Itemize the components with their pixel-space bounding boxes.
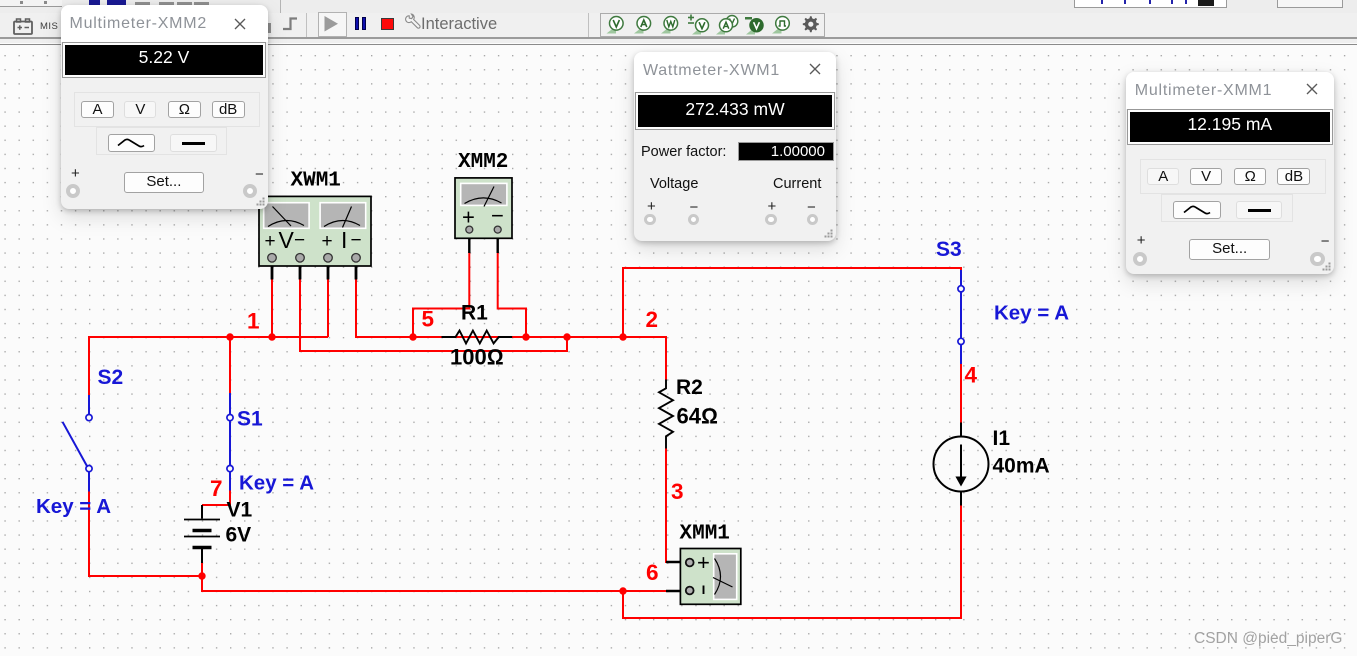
wire S2 lower [89,492,202,577]
svg-text:+: + [265,231,276,252]
row1 clipped blue icons [89,0,100,5]
wire XWM1 I+ drop [327,279,329,337]
battery icon button [11,17,37,39]
junction node 2 [619,333,626,340]
wire XMM2 minus to node2 [498,252,526,337]
svg-text:I: I [341,227,347,253]
svg-text:+: + [322,231,333,252]
clipped icon right of dialog [266,23,271,33]
svg-text:−: − [491,203,504,228]
svg-text:V: V [279,227,295,253]
Interactive text [421,15,497,34]
probe minus V [745,17,763,35]
svg-text:R2: R2 [676,376,703,399]
separator [306,13,307,37]
battery V1 [184,505,220,563]
svg-text:−: − [294,230,305,251]
multimeter XMM2 [455,178,512,253]
switch S3 [958,270,964,364]
wire bus node1 left segment [89,337,328,395]
svg-text:S2: S2 [98,366,124,389]
row1 clipped right box [1277,0,1343,8]
resistor R2 [659,380,673,449]
svg-text:3: 3 [671,479,684,504]
row1 left button remnant [0,0,62,7]
dialog Multimeter-XMM1 [1126,72,1334,274]
switch S2 [63,395,93,492]
wire R2 to XMM1 plus [666,449,668,563]
MISC text [40,21,58,32]
probe V [607,17,624,34]
svg-text:+: + [697,550,710,575]
wire node2 up to S3 [623,268,961,337]
svg-text:XMM1: XMM1 [680,523,730,546]
junction V- return [563,333,570,340]
svg-text:I1: I1 [993,427,1011,450]
wire node5 to XMM2 plus [413,252,469,337]
wire V1 to bottom bus [202,505,961,618]
wire S1 branch [229,337,231,393]
row1 clipped gray icons [135,2,150,6]
svg-text:40mA: 40mA [993,455,1050,478]
svg-text:XMM2: XMM2 [458,151,508,174]
svg-text:100Ω: 100Ω [450,345,504,370]
current source I1 [934,423,989,506]
switch S1 [227,393,233,491]
junction node 6 [619,587,626,594]
pause icon [355,17,360,31]
svg-text:6: 6 [646,560,659,585]
wire XWM1 V- return [300,279,567,351]
svg-text:7: 7 [210,476,223,501]
row1 clipped combo box [1074,0,1227,8]
junction V+ [268,333,275,340]
svg-text:S1: S1 [237,408,263,431]
svg-text:6V: 6V [226,524,252,547]
watermark [1194,630,1342,648]
svg-text:Key = A: Key = A [36,495,111,518]
svg-text:R1: R1 [461,302,488,325]
row1 separator [280,0,281,13]
svg-text:64Ω: 64Ω [677,404,718,429]
separator [588,13,589,37]
wire bus node2 segment [356,279,666,380]
junction node 1 [226,333,233,340]
svg-text:−: − [351,230,362,251]
dialog Multimeter-XMM2 [61,5,268,209]
probe W [661,17,678,34]
multimeter XMM1 [666,549,741,605]
junction XMM2 minus [522,333,529,340]
svg-text:5: 5 [422,307,435,332]
play button [318,12,347,38]
svg-text:V1: V1 [227,499,253,522]
toolbar row 2 [0,13,1357,37]
probe A [634,17,651,34]
wattmeter XWM1 [259,196,371,279]
svg-text:Key = A: Key = A [239,472,314,495]
svg-text:2: 2 [646,307,659,332]
svg-text:XWM1: XWM1 [291,170,341,193]
probe pulse [772,17,789,34]
svg-text:S3: S3 [936,238,962,261]
wrench icon [404,13,422,31]
dialog Wattmeter-XWM1 [634,52,836,241]
wire bottom to XMM1 minus [623,590,667,592]
wire S1 to V1 [202,491,230,506]
wire S3 to I1 node4 [960,364,962,423]
junction node 5 [409,333,416,340]
gear icon [803,16,819,32]
step icon [280,14,302,36]
stop icon [381,18,394,31]
resistor R1 [442,331,513,344]
svg-text:1: 1 [247,309,260,334]
svg-text:4: 4 [965,363,978,388]
toolbar row 1 (clipped top toolbar) [0,0,1357,13]
probe plus-minus V [688,15,709,35]
wire XWM1 V+ drop [271,279,273,337]
probe AV [716,16,738,35]
probes toolbar box [600,13,825,37]
svg-text:Key = A: Key = A [994,302,1069,325]
junction V1 bottom [198,572,205,579]
